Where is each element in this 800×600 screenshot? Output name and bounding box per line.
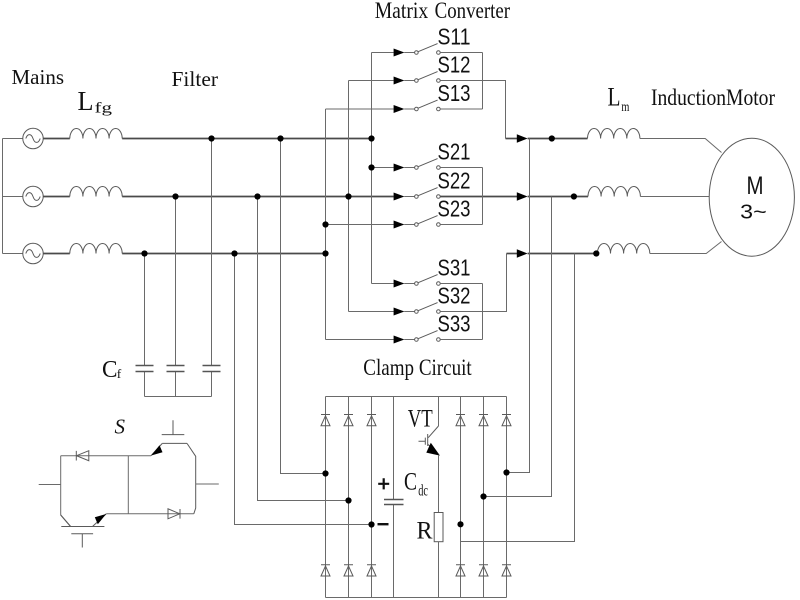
wire R to bottom bus <box>438 542 440 598</box>
wire line1 to bus C <box>122 138 371 140</box>
diode D4d <box>456 565 465 576</box>
inductor Lm-b <box>588 187 640 197</box>
matrix input bus C <box>371 53 373 284</box>
diode DS2 (points right) <box>168 509 180 519</box>
label + <box>378 478 389 489</box>
example switch S: bottom wire <box>106 513 194 515</box>
transistor Q1 (top IGBT) <box>151 420 196 514</box>
diode D5u <box>479 415 488 426</box>
svg-text:3~: 3~ <box>740 202 767 224</box>
wire clamp drop from line3 <box>235 254 372 525</box>
svg-text:S23: S23 <box>438 195 471 221</box>
wire clamp drop from line1 <box>281 139 326 474</box>
wire group1 jog to line1 <box>483 81 506 139</box>
svg-text:m: m <box>621 100 629 115</box>
svg-text:S13: S13 <box>438 80 471 106</box>
wire line2 to S22 arrow <box>122 196 394 198</box>
svg-text:S22: S22 <box>438 167 471 193</box>
example switch S: left terminal <box>39 484 61 486</box>
svg-text:S11: S11 <box>438 23 471 49</box>
matrix output bus group2 <box>482 168 484 225</box>
diode D3u <box>367 415 376 426</box>
diode D1d <box>321 565 330 576</box>
arrow out line1 <box>517 134 528 143</box>
motor M ellipse <box>709 138 794 256</box>
wire line2 left <box>43 196 70 198</box>
transistor VT <box>419 397 441 513</box>
svg-text:C: C <box>404 468 417 495</box>
matrix output bus group3 <box>482 284 484 340</box>
svg-text:InductionMotor: InductionMotor <box>651 85 775 110</box>
diode D5d <box>479 565 488 576</box>
junction dots line2 <box>172 193 178 199</box>
svg-text:Mains: Mains <box>12 65 65 89</box>
wire line2 out <box>528 196 588 198</box>
junction dot bus A / S23 <box>322 221 328 227</box>
clamp top bus <box>326 396 507 398</box>
svg-text:S21: S21 <box>438 138 471 164</box>
matrix input bus B <box>348 81 350 312</box>
svg-text:Filter: Filter <box>172 67 219 91</box>
wire line1 left <box>43 138 70 140</box>
svg-text:M: M <box>747 172 764 200</box>
svg-text:S31: S31 <box>438 254 471 280</box>
wire riser line3 to clamp <box>461 254 575 542</box>
wire Cf bottom bus <box>145 396 212 398</box>
arrow out line2 <box>517 192 528 201</box>
svg-text:f: f <box>117 366 122 381</box>
clamp leg L1 <box>325 397 327 598</box>
diode D6u <box>502 415 511 426</box>
clamp bottom bus <box>326 597 507 599</box>
svg-text:S: S <box>115 415 126 439</box>
svg-text:fg: fg <box>95 101 113 117</box>
junction dot bus C / S21 <box>368 164 374 170</box>
inductor Lfg-a <box>70 129 122 139</box>
junction dots clamp left <box>322 470 328 476</box>
wire neutral vertical left <box>2 139 4 254</box>
wire line1 to motor <box>640 139 722 153</box>
diode D2u <box>344 415 353 426</box>
svg-text:R: R <box>417 517 433 544</box>
matrix input bus A <box>325 109 327 340</box>
diode D1u <box>321 415 330 426</box>
wire line3 to bus A <box>122 253 325 255</box>
diode D3d <box>367 565 376 576</box>
diode D6d <box>502 565 511 576</box>
resistor R <box>434 513 443 542</box>
transistor Q2 (bottom IGBT) <box>61 514 107 548</box>
switch S33 <box>326 331 483 344</box>
wire line1 out <box>528 138 588 140</box>
svg-text:Clamp Circuit: Clamp Circuit <box>363 355 472 380</box>
switch S31 <box>372 275 483 288</box>
junction dots clamp right <box>503 469 509 475</box>
example switch S: top wire <box>61 455 151 457</box>
clamp leg L2 <box>348 397 350 598</box>
capacitor Cf1 <box>136 254 154 397</box>
inductor Lfg-c <box>70 244 122 254</box>
svg-text:Converter: Converter <box>435 0 511 23</box>
switch S13 <box>326 100 483 113</box>
switch S22 <box>394 188 517 201</box>
matrix output bus group1 <box>482 53 484 110</box>
wire riser line1 to clamp <box>507 139 530 473</box>
junction dots line1 <box>208 135 214 141</box>
svg-text:L: L <box>78 86 94 116</box>
diode D4u <box>456 415 465 426</box>
AC source V2 <box>3 186 44 206</box>
wire line3 left <box>43 253 70 255</box>
svg-text:S12: S12 <box>438 51 471 77</box>
arrow out line3 <box>517 249 528 258</box>
wire clamp drop from line2 <box>258 197 349 501</box>
switch S11 <box>372 44 483 57</box>
label minus <box>378 523 389 525</box>
wire group3 jog to line3 <box>483 254 507 312</box>
inductor Lm-a <box>588 129 640 139</box>
svg-text:S33: S33 <box>438 310 471 336</box>
clamp leg R1 <box>460 397 462 598</box>
AC source V1 <box>3 128 44 148</box>
clamp leg R3 <box>506 397 508 598</box>
svg-text:S32: S32 <box>438 282 471 308</box>
switch S21 <box>372 159 483 172</box>
wire line1 out stub <box>506 138 518 140</box>
svg-text:L: L <box>608 83 621 112</box>
switch S12 <box>349 72 483 85</box>
clamp leg R2 <box>483 397 485 598</box>
svg-text:Matrix: Matrix <box>375 0 429 23</box>
capacitor Cf2 <box>167 197 185 397</box>
svg-text:dc: dc <box>418 483 428 500</box>
example switch S: right terminal <box>196 483 219 485</box>
example switch S: middle vertical <box>127 456 129 514</box>
inductor Lfg-b <box>70 187 122 197</box>
wire line2 to motor <box>640 196 709 198</box>
clamp leg L3 <box>371 397 373 598</box>
switch S23 <box>326 216 483 229</box>
diode D2d <box>344 565 353 576</box>
junction dots line3 <box>141 250 147 256</box>
wire riser line2 to clamp <box>484 197 552 497</box>
capacitor Cf3 <box>203 139 221 397</box>
capacitor Cdc <box>384 397 404 598</box>
example switch S: left vertical <box>61 456 71 527</box>
inductor Lm-c <box>597 244 649 254</box>
wire line3 out <box>528 253 598 255</box>
switch S32 <box>349 303 483 316</box>
AC source V3 <box>3 243 44 263</box>
wire line3 to motor <box>650 242 722 254</box>
diode DS1 (points left) <box>76 451 89 461</box>
svg-text:VT: VT <box>408 405 433 432</box>
wire line3 out stub <box>507 253 518 255</box>
svg-text:C: C <box>102 357 118 383</box>
